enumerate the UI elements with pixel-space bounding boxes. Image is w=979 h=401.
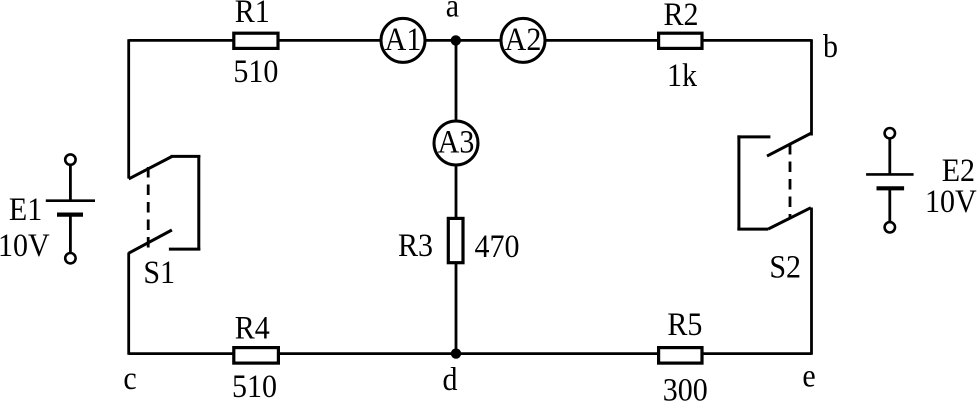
wire left rail lower segment bbox=[127, 253, 130, 355]
battery E2 long plate bbox=[866, 173, 914, 176]
wire right rail upper segment bbox=[810, 39, 813, 135]
wire middle branch a-d bbox=[455, 40, 458, 353]
wire right rail lower segment bbox=[810, 208, 813, 355]
switch S1 inner right vertical bbox=[197, 155, 200, 250]
battery E2 bottom terminal bbox=[885, 222, 895, 232]
switch S2 dashed linkage bbox=[789, 144, 792, 219]
resistor R3 bbox=[448, 218, 463, 262]
svg-text:10V: 10V bbox=[0, 227, 50, 263]
resistor R2 bbox=[659, 33, 702, 48]
battery E2 top lead wire bbox=[888, 138, 891, 174]
svg-text:10V: 10V bbox=[925, 183, 977, 219]
node d bbox=[451, 348, 461, 358]
svg-text:300: 300 bbox=[663, 371, 708, 401]
svg-text:A2: A2 bbox=[505, 21, 542, 57]
ammeter A3 bbox=[434, 121, 478, 165]
node a bbox=[451, 35, 461, 45]
svg-text:d: d bbox=[443, 361, 458, 397]
svg-text:510: 510 bbox=[232, 368, 277, 401]
battery E1 bottom terminal bbox=[65, 253, 75, 263]
switch S2 bottom fixed contact horizontal bbox=[737, 228, 768, 231]
svg-text:R3: R3 bbox=[398, 227, 433, 263]
svg-text:S1: S1 bbox=[143, 254, 175, 290]
wire left rail upper segment bbox=[127, 39, 130, 178]
svg-text:1k: 1k bbox=[667, 57, 697, 93]
switch S1 top fixed contact horizontal bbox=[171, 155, 201, 158]
resistor R1 bbox=[234, 33, 278, 48]
svg-text:E1: E1 bbox=[9, 191, 42, 227]
battery E1 short plate bbox=[57, 213, 83, 217]
wire top rail bbox=[129, 39, 812, 42]
svg-text:R1: R1 bbox=[235, 0, 270, 29]
switch S2 lower blade bbox=[768, 208, 811, 229]
switch S2 inner left vertical bbox=[737, 135, 740, 230]
switch S1 upper blade bbox=[129, 157, 172, 179]
svg-text:S2: S2 bbox=[769, 248, 801, 284]
battery E1 long plate bbox=[46, 199, 95, 202]
resistor R5 bbox=[659, 348, 702, 364]
svg-text:b: b bbox=[823, 28, 838, 64]
ammeter A1 bbox=[381, 18, 425, 62]
svg-text:510: 510 bbox=[233, 53, 278, 89]
switch S2 upper blade (open) bbox=[767, 133, 812, 156]
ammeter A2 bbox=[501, 18, 545, 62]
svg-text:A3: A3 bbox=[438, 124, 475, 160]
switch S2 top fixed contact horizontal bbox=[737, 135, 770, 138]
battery E1 bottom lead wire bbox=[69, 215, 72, 253]
svg-text:R5: R5 bbox=[667, 306, 702, 342]
svg-text:R2: R2 bbox=[663, 0, 698, 32]
battery E1 top lead wire bbox=[69, 165, 72, 201]
wire bottom rail bbox=[129, 352, 812, 355]
switch S1 lower blade (open) bbox=[129, 230, 172, 253]
resistor R4 bbox=[234, 348, 279, 364]
switch S1 dashed linkage bbox=[147, 167, 150, 249]
svg-text:R4: R4 bbox=[235, 309, 270, 345]
battery E2 short plate bbox=[877, 186, 905, 190]
battery E2 top terminal bbox=[885, 128, 895, 138]
svg-text:A1: A1 bbox=[385, 21, 422, 57]
switch S1 bottom fixed contact horizontal bbox=[169, 248, 200, 251]
svg-text:a: a bbox=[446, 0, 459, 24]
svg-text:470: 470 bbox=[475, 228, 520, 264]
svg-text:c: c bbox=[123, 360, 136, 396]
battery E2 bottom lead wire bbox=[888, 188, 891, 222]
svg-text:e: e bbox=[802, 357, 815, 393]
battery E1 top terminal bbox=[65, 154, 75, 164]
